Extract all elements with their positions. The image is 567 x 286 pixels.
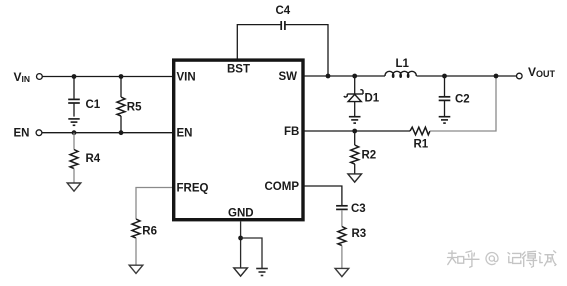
wire GND right branch bbox=[241, 238, 262, 268]
ground C1 (3-bar) bbox=[68, 119, 79, 125]
node junction R2/FB bbox=[352, 129, 357, 134]
svg-text:C1: C1 bbox=[86, 99, 101, 111]
resistor R6 bbox=[132, 219, 140, 238]
svg-text:FB: FB bbox=[284, 126, 299, 138]
resistor R3 bbox=[338, 227, 346, 246]
svg-text:EN: EN bbox=[14, 128, 30, 140]
wire COMP to C3 bbox=[303, 186, 342, 205]
node junction C1/VIN bbox=[72, 74, 77, 79]
resistor R4 bbox=[70, 150, 78, 169]
svg-text:GND: GND bbox=[228, 208, 254, 220]
wire VIN rail bbox=[42, 76, 172, 78]
svg-text:VIN: VIN bbox=[14, 70, 31, 84]
svg-text:R3: R3 bbox=[352, 228, 367, 240]
ground C2 (3-bar) bbox=[439, 117, 451, 123]
node VIN terminal bbox=[37, 74, 43, 80]
wire R4 bottom bbox=[73, 169, 75, 183]
wire FB rail bbox=[303, 130, 410, 132]
ground R2 (triangle) bbox=[348, 174, 362, 182]
wire C4 to SW bbox=[285, 25, 328, 76]
svg-text:FREQ: FREQ bbox=[177, 183, 209, 195]
svg-text:C4: C4 bbox=[276, 5, 291, 17]
svg-text:R6: R6 bbox=[142, 226, 157, 238]
svg-text:R4: R4 bbox=[86, 153, 101, 165]
ground D1 (3-bar) bbox=[349, 117, 361, 123]
wire R5 top bbox=[120, 77, 122, 98]
wire C1 top bbox=[73, 77, 75, 99]
svg-text:C2: C2 bbox=[455, 94, 470, 106]
ground GND (3-bar) bbox=[256, 269, 268, 276]
wire BST to C4 bbox=[237, 25, 281, 59]
resistor R5 bbox=[117, 97, 125, 116]
wire FREQ to R6 bbox=[136, 188, 172, 220]
ground R4 (triangle) bbox=[67, 183, 81, 191]
inductor L1 bbox=[385, 71, 416, 77]
capacitor C1 bbox=[68, 99, 80, 116]
node VOUT terminal bbox=[517, 73, 523, 79]
svg-text:COMP: COMP bbox=[265, 181, 300, 193]
wire GND pin down bbox=[240, 222, 242, 268]
wire EN rail bbox=[42, 132, 172, 134]
svg-text:R1: R1 bbox=[414, 139, 429, 151]
watermark zhihu bbox=[448, 251, 556, 267]
diode D1 (schottky) bbox=[344, 90, 363, 117]
svg-text:BST: BST bbox=[227, 64, 250, 76]
svg-text:EN: EN bbox=[177, 128, 193, 140]
wire R2 bottom bbox=[354, 164, 356, 174]
wire R4 top bbox=[73, 133, 75, 150]
resistor R1 bbox=[410, 127, 430, 135]
wire SW rail right bbox=[417, 75, 517, 77]
node junction D1/SW bbox=[352, 74, 357, 79]
IC U1 buck regulator bbox=[174, 60, 303, 220]
wire D1 top bbox=[354, 76, 356, 94]
svg-text:VIN: VIN bbox=[177, 72, 196, 84]
wire SW rail left bbox=[303, 75, 385, 77]
wire R3 bottom bbox=[341, 246, 343, 269]
node junction C2/SW bbox=[442, 74, 447, 79]
ground R3 (triangle) bbox=[335, 268, 349, 276]
wire C3 to R3 bbox=[341, 210, 343, 227]
node EN terminal bbox=[36, 130, 42, 136]
node junction R5/EN bbox=[119, 130, 124, 135]
svg-text:C3: C3 bbox=[351, 203, 366, 215]
resistor R2 bbox=[351, 145, 359, 164]
svg-text:VOUT: VOUT bbox=[528, 65, 556, 79]
capacitor C4 bbox=[281, 21, 285, 30]
wire R6 bottom bbox=[135, 238, 137, 265]
ground R6 (triangle) bbox=[129, 265, 143, 273]
node junction R5/VIN bbox=[119, 74, 124, 79]
svg-text:R5: R5 bbox=[127, 102, 142, 114]
ground GND (triangle) bbox=[234, 268, 248, 276]
wire R2 top bbox=[354, 131, 356, 145]
node junction R4/EN bbox=[72, 130, 77, 135]
node junction GND bbox=[238, 236, 243, 241]
wire C2 top bbox=[444, 76, 446, 96]
capacitor C3 bbox=[336, 206, 348, 210]
node junction R1/VOUT bbox=[494, 74, 499, 79]
watermark at-sign bbox=[486, 253, 498, 265]
wire R5 bottom bbox=[120, 116, 122, 133]
svg-text:D1: D1 bbox=[365, 93, 380, 105]
svg-text:SW: SW bbox=[279, 71, 298, 83]
wire R1 to VOUT bbox=[430, 76, 496, 131]
capacitor C2 bbox=[439, 97, 451, 117]
svg-text:L1: L1 bbox=[396, 58, 410, 70]
svg-text:R2: R2 bbox=[362, 150, 377, 162]
node junction C4/SW bbox=[326, 74, 331, 79]
